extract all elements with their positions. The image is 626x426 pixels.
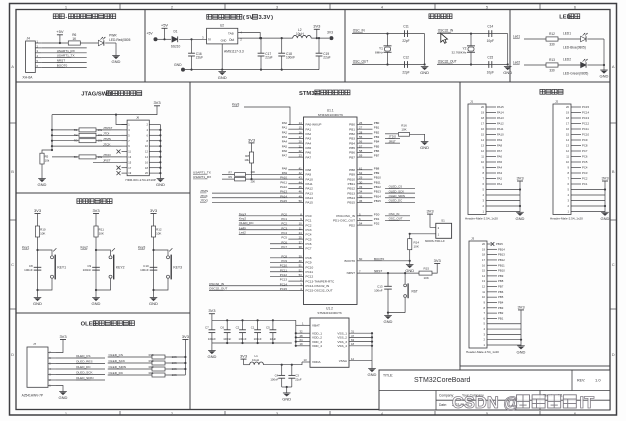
- resistor R11: [94, 226, 104, 237]
- svg-text:13: 13: [481, 144, 484, 148]
- wire J4 pin 2 stub: [35, 44, 41, 48]
- section box jtag: [16, 82, 190, 193]
- resistor R12: [546, 32, 558, 46]
- svg-text:OLED_RES: OLED_RES: [76, 360, 93, 364]
- svg-text:PA14: PA14: [306, 196, 314, 200]
- op-amp U1.1 pin names: [306, 123, 356, 293]
- svg-text:PC12: PC12: [582, 122, 589, 126]
- svg-text:49: 49: [299, 194, 303, 198]
- svg-text:52: 52: [299, 268, 303, 272]
- svg-text:PC13-TAMPER-RTC: PC13-TAMPER-RTC: [306, 279, 336, 283]
- svg-text:39: 39: [299, 254, 303, 258]
- node Led1 (mcu-pc): [239, 226, 289, 230]
- wire BOOT0 pin: [357, 257, 410, 261]
- svg-text:S1: S1: [441, 219, 445, 223]
- svg-text:16: 16: [299, 130, 303, 134]
- title mcu: [299, 90, 350, 97]
- svg-text:C11: C11: [403, 24, 409, 28]
- section box keys: [16, 193, 190, 313]
- svg-text:OSC_IN: OSC_IN: [389, 212, 400, 216]
- wire rail to R2: [51, 134, 79, 136]
- wire pc8 ext: [270, 257, 288, 259]
- svg-text:GND: GND: [156, 182, 165, 187]
- svg-text:Led2: Led2: [239, 230, 246, 234]
- svg-text:PD0-OSC_IN: PD0-OSC_IN: [336, 214, 355, 218]
- ground (KEY2): [92, 290, 101, 306]
- crystal Y1: [375, 34, 391, 65]
- svg-text:PA4: PA4: [497, 166, 503, 170]
- svg-text:62: 62: [359, 171, 363, 175]
- svg-text:OSC_OUT: OSC_OUT: [353, 59, 368, 63]
- wire Led1 to resistor: [524, 38, 546, 40]
- svg-text:C7: C7: [205, 326, 209, 330]
- wire key top branch: [38, 250, 53, 255]
- svg-text:11: 11: [299, 226, 302, 230]
- power flag 3V3 (R8): [248, 137, 256, 152]
- svg-text:42: 42: [299, 171, 303, 175]
- svg-text:PB6: PB6: [498, 290, 504, 294]
- node Led2 (mcu-pc): [239, 230, 289, 234]
- title led: [559, 14, 580, 21]
- svg-text:53: 53: [299, 273, 303, 277]
- svg-text:22: 22: [299, 149, 303, 153]
- svg-text:10: 10: [481, 160, 484, 164]
- resistor R6: [68, 33, 80, 45]
- svg-text:PC10: PC10: [306, 265, 314, 269]
- svg-text:14: 14: [299, 121, 303, 125]
- svg-text:GND: GND: [149, 301, 158, 306]
- svg-text:GND: GND: [503, 70, 512, 75]
- svg-text:PA5: PA5: [497, 160, 503, 164]
- svg-text:PA1: PA1: [306, 127, 312, 131]
- svg-text:PC11: PC11: [582, 127, 589, 131]
- svg-text:100nF: 100nF: [140, 268, 149, 272]
- svg-text:PA10: PA10: [306, 177, 314, 181]
- svg-text:OLED_DC: OLED_DC: [109, 371, 124, 375]
- svg-text:PB15: PB15: [374, 199, 381, 203]
- svg-text:A: A: [612, 64, 615, 69]
- wire U2 gnd pin: [221, 44, 223, 70]
- svg-text:100nF: 100nF: [374, 288, 383, 292]
- svg-text:PB11: PB11: [374, 180, 381, 184]
- connector J7 pin stubs: [48, 351, 56, 388]
- capacitor C4: [270, 365, 285, 387]
- svg-text:51: 51: [299, 264, 303, 268]
- svg-text:PB13: PB13: [374, 190, 381, 194]
- inductor L2: [293, 28, 312, 38]
- section box led: [510, 10, 610, 83]
- svg-text:PB9: PB9: [349, 173, 355, 177]
- svg-text:PB15: PB15: [496, 242, 503, 246]
- power flag 3V3 (vdd): [208, 308, 216, 320]
- svg-text:PA1: PA1: [282, 126, 288, 130]
- svg-text:10uH: 10uH: [296, 32, 304, 36]
- svg-text:PA0: PA0: [282, 121, 288, 125]
- svg-text:3V3: 3V3: [150, 208, 158, 213]
- svg-text:GND: GND: [38, 182, 47, 187]
- svg-text:B: B: [11, 169, 14, 174]
- svg-text:In: In: [208, 38, 211, 42]
- svg-text:KEY2: KEY2: [116, 266, 125, 270]
- svg-text:19: 19: [566, 111, 569, 115]
- svg-text:PB1: PB1: [374, 126, 380, 130]
- svg-text:10K: 10K: [424, 276, 429, 280]
- resistor R15: [419, 267, 432, 280]
- svg-text:J2: J2: [555, 100, 559, 104]
- power flag 3V3 (KEY3): [150, 208, 158, 226]
- svg-text:19: 19: [482, 247, 485, 251]
- svg-text:17: 17: [299, 135, 303, 139]
- svg-text:NRST: NRST: [347, 271, 356, 275]
- svg-text:PA15: PA15: [497, 105, 504, 109]
- wire U2 TAB: [238, 33, 260, 39]
- svg-text:61: 61: [359, 166, 363, 170]
- node Key3 (mcu): [232, 103, 290, 125]
- capacitor C11: [402, 24, 409, 43]
- svg-text:PC8: PC8: [306, 256, 312, 260]
- svg-text:C2: C2: [236, 326, 240, 330]
- svg-text:PC2: PC2: [306, 223, 312, 227]
- svg-text:PB5: PB5: [349, 146, 355, 150]
- section box power: [145, 10, 345, 83]
- svg-text:16: 16: [566, 127, 569, 131]
- op-amp U1.1 outline: [304, 108, 358, 304]
- watermark CSDN: [452, 394, 594, 412]
- svg-text:PC3: PC3: [582, 171, 588, 175]
- svg-text:IT: IT: [580, 394, 595, 412]
- node OLED_CS (pb): [385, 185, 415, 189]
- svg-text:JTRST: JTRST: [103, 126, 113, 130]
- svg-text:Date:: Date:: [439, 403, 447, 407]
- svg-text:Key1: Key1: [239, 212, 246, 216]
- svg-text:12: 12: [481, 149, 484, 153]
- svg-text:PB1: PB1: [349, 127, 355, 131]
- wire key top branch: [96, 250, 111, 255]
- connector J6 pin stubs: [122, 123, 156, 176]
- section box mcu: [190, 82, 460, 410]
- node 3V3 output: [327, 30, 333, 40]
- svg-text:15: 15: [481, 133, 484, 137]
- svg-text:PA15: PA15: [306, 201, 314, 205]
- capacitor C9: [83, 264, 100, 272]
- button KEY2: [109, 248, 125, 279]
- power flag +5V (power): [161, 23, 169, 41]
- svg-text:PA9: PA9: [497, 138, 503, 142]
- svg-text:15: 15: [299, 126, 303, 130]
- capacitor C3: [288, 365, 301, 387]
- svg-text:A2541HWV-7P: A2541HWV-7P: [22, 394, 43, 398]
- resistor R16: [399, 124, 410, 137]
- resistor R2: [74, 133, 103, 137]
- wire jtag left rail: [52, 114, 117, 151]
- node OSC_OUT (pd1): [385, 217, 410, 221]
- node Led2: [513, 61, 520, 65]
- svg-text:PA3: PA3: [497, 171, 503, 175]
- resistor R4: [52, 155, 122, 159]
- svg-text:10pF: 10pF: [487, 39, 494, 43]
- node OSC32_OUT: [438, 59, 457, 63]
- svg-text:22uF: 22uF: [270, 337, 277, 341]
- svg-text:PB4: PB4: [349, 141, 355, 145]
- svg-text:PC14: PC14: [582, 111, 589, 115]
- node oledp OLED_SDIN: [109, 365, 127, 369]
- ground (vdda): [282, 393, 291, 402]
- section box comms: [16, 10, 145, 83]
- node Key1: [22, 245, 29, 249]
- svg-text:R7: R7: [229, 170, 233, 174]
- wire KEY2 pull: [95, 237, 97, 291]
- wire L2 to output: [311, 37, 329, 39]
- svg-text:PB6: PB6: [374, 149, 380, 153]
- svg-text:OSC32_IN: OSC32_IN: [209, 282, 224, 286]
- node oled OLED_SDIN: [76, 376, 94, 380]
- svg-text:GND: GND: [420, 70, 429, 75]
- svg-text:PA12: PA12: [306, 187, 314, 191]
- svg-text:57: 57: [359, 144, 363, 148]
- svg-text:24: 24: [299, 231, 303, 235]
- svg-text:Header-Male-2.54_1x20: Header-Male-2.54_1x20: [550, 217, 583, 221]
- svg-text:VBAT: VBAT: [312, 324, 320, 328]
- svg-text:PA12: PA12: [497, 122, 504, 126]
- wire J4 pin 4 stub: [35, 54, 41, 58]
- svg-text:OLED_SDIN: OLED_SDIN: [76, 376, 94, 380]
- svg-text:CSDN @: CSDN @: [452, 394, 519, 412]
- title keys: [77, 199, 112, 204]
- wire pull to rail OLED_CS: [165, 356, 186, 358]
- crystal Y2: [452, 34, 475, 65]
- wire +5V to R6: [42, 42, 69, 44]
- svg-text:USART1_TX: USART1_TX: [193, 170, 211, 174]
- svg-text:10uH: 10uH: [252, 358, 259, 362]
- svg-text:PD0: PD0: [374, 212, 380, 216]
- wire R1 to J6: [96, 129, 122, 131]
- svg-text:AMS1117-3.3: AMS1117-3.3: [224, 50, 244, 54]
- power flag 3V3 (boot): [426, 209, 435, 228]
- svg-text:PA10: PA10: [497, 133, 504, 137]
- wire key bottom branch: [38, 279, 53, 290]
- svg-text:LED-Green(0805): LED-Green(0805): [563, 71, 588, 75]
- svg-text:18: 18: [566, 116, 569, 120]
- svg-text:PC5: PC5: [582, 160, 588, 164]
- svg-text:PC10: PC10: [582, 133, 589, 137]
- svg-text:GND: GND: [174, 63, 182, 67]
- svg-text:GND: GND: [59, 395, 68, 400]
- wire Led2 to resistor: [524, 64, 546, 66]
- wire L1 to vdda: [264, 362, 303, 366]
- section box oled: [16, 313, 190, 410]
- svg-text:60: 60: [359, 257, 363, 261]
- resistor R13: [546, 58, 558, 72]
- svg-text:OSC_OUT: OSC_OUT: [389, 217, 403, 221]
- svg-text:C12: C12: [403, 55, 409, 59]
- svg-text:OLED_SDIN: OLED_SDIN: [109, 365, 127, 369]
- svg-text:PA11: PA11: [497, 127, 504, 131]
- svg-text:J7: J7: [33, 342, 37, 346]
- wire oled pull OLED_SCK: [108, 362, 152, 364]
- resistor R10: [35, 226, 46, 237]
- svg-text:3V3: 3V3: [517, 304, 525, 309]
- svg-text:100: 100: [250, 180, 255, 184]
- svg-text:PB4: PB4: [374, 140, 380, 144]
- wire pc6 ext: [270, 243, 288, 245]
- svg-text:19: 19: [300, 342, 304, 346]
- svg-text:Key3: Key3: [138, 245, 145, 249]
- svg-text:PB3: PB3: [374, 135, 380, 139]
- wire oled pull OLED_DC: [108, 374, 152, 376]
- svg-text:PA7: PA7: [497, 149, 503, 153]
- svg-text:58: 58: [359, 149, 363, 153]
- svg-text:PB11: PB11: [498, 263, 505, 267]
- svg-text:C14: C14: [487, 24, 493, 28]
- svg-text:37: 37: [299, 240, 303, 244]
- svg-text:12: 12: [482, 285, 485, 289]
- svg-text:27: 27: [359, 126, 363, 130]
- svg-text:PC15: PC15: [582, 105, 589, 109]
- svg-text:PB7: PB7: [349, 155, 355, 159]
- wire resistor to LED: [558, 38, 581, 40]
- svg-text:22uF: 22uF: [323, 56, 330, 60]
- svg-text:KEY3: KEY3: [173, 266, 182, 270]
- svg-text:GND: GND: [368, 372, 377, 377]
- svg-text:USART1_TX: USART1_TX: [57, 54, 75, 58]
- svg-text:PB7: PB7: [498, 285, 504, 289]
- node JRST (pb4): [385, 139, 400, 143]
- svg-text:44: 44: [299, 180, 303, 184]
- svg-text:19: 19: [481, 111, 484, 115]
- svg-text:PB0: PB0: [374, 121, 380, 125]
- svg-text:13: 13: [304, 358, 308, 362]
- node oledp OLED_DC: [109, 371, 124, 375]
- svg-text:PC9: PC9: [306, 261, 312, 265]
- ground (vdd caps): [207, 343, 216, 359]
- svg-text:PB4: PB4: [498, 300, 504, 304]
- node OSC32_IN: [438, 28, 454, 32]
- svg-text:PA14: PA14: [497, 111, 504, 115]
- svg-text:R13: R13: [549, 58, 555, 62]
- svg-text:22pF: 22pF: [402, 70, 409, 74]
- title block outline: [379, 370, 610, 410]
- op-amp U1.2 outline: [310, 306, 349, 367]
- wire USART1_TX row: [42, 57, 87, 59]
- svg-text:100nF: 100nF: [208, 337, 216, 341]
- wire oled OLED_SDIN: [56, 379, 105, 381]
- LED PWR LED-Red: [98, 34, 130, 46]
- wire J4 pin 6 stub: [35, 64, 41, 68]
- svg-text:PA3: PA3: [306, 137, 312, 141]
- svg-text:JTDO: JTDO: [200, 198, 209, 202]
- svg-text:45: 45: [299, 185, 303, 189]
- resistor R21: [149, 371, 177, 377]
- ground (J3): [517, 346, 526, 355]
- svg-text:VDD_4: VDD_4: [312, 344, 322, 348]
- svg-text:PA6: PA6: [306, 151, 312, 155]
- svg-text:PB13: PB13: [498, 253, 505, 257]
- svg-text:PA6: PA6: [497, 155, 503, 159]
- resistor R20: [149, 365, 177, 371]
- svg-text:PA7: PA7: [306, 155, 312, 159]
- wire crystal right rail: [424, 34, 426, 66]
- wire crystal right rail: [507, 34, 509, 66]
- button KEY3: [167, 248, 183, 279]
- svg-text:17: 17: [482, 258, 485, 262]
- wire oled pull OLED_SDIN: [108, 368, 152, 370]
- connector J7: [22, 342, 48, 397]
- svg-text:GND: GND: [207, 354, 216, 359]
- ground (nrst): [384, 313, 393, 325]
- svg-text:VDDA: VDDA: [312, 360, 322, 364]
- svg-text:OSC32_OUT: OSC32_OUT: [209, 286, 228, 290]
- regulator U2 AMS1117-3.3: [202, 24, 244, 54]
- svg-text:3.3V: 3.3V: [258, 15, 270, 21]
- svg-text:3V3: 3V3: [434, 258, 442, 263]
- node Key2: [81, 245, 88, 249]
- svg-text:PA2: PA2: [497, 177, 503, 181]
- node BOOT0 (comms): [57, 64, 68, 68]
- svg-text:PB8: PB8: [349, 168, 355, 172]
- svg-text:R1: R1: [74, 128, 78, 132]
- resistor R19: [149, 359, 177, 365]
- capacitor C10: [140, 264, 157, 272]
- svg-text:PC1: PC1: [582, 182, 588, 186]
- svg-text:R9: R9: [229, 175, 233, 179]
- wire USART1_RX row: [42, 52, 87, 54]
- power flag 3V3 (oled): [56, 334, 67, 353]
- svg-text:J4: J4: [27, 37, 31, 41]
- svg-text:OLED_SCK: OLED_SCK: [389, 189, 404, 193]
- wire osc out: [437, 63, 508, 65]
- svg-text:10K: 10K: [99, 232, 104, 236]
- wire rail to R1: [51, 129, 79, 131]
- svg-text:OLED_SCK: OLED_SCK: [109, 359, 126, 363]
- node OLED_DC (mcu-pc): [239, 221, 289, 225]
- svg-text:3V3: 3V3: [248, 137, 256, 142]
- wire J1 pins: [481, 105, 524, 214]
- wire S1 pin1 to R14: [409, 233, 436, 240]
- svg-text:55: 55: [359, 135, 363, 139]
- svg-text:PB2: PB2: [374, 130, 380, 134]
- svg-text:R12: R12: [549, 32, 555, 36]
- svg-text:18: 18: [351, 342, 355, 346]
- connector J6 HDR-IDC: [126, 116, 156, 182]
- svg-text:PB12: PB12: [374, 185, 381, 189]
- node OSC_IN (pd0): [385, 212, 410, 216]
- capacitor C1: [251, 320, 262, 343]
- node oledp OLED_SCK: [109, 359, 126, 363]
- connector J2: [550, 100, 583, 221]
- svg-text:100nF: 100nF: [223, 337, 231, 341]
- svg-text:VSSA: VSSA: [339, 359, 348, 363]
- svg-text:22pF: 22pF: [402, 39, 409, 43]
- connector J4: [22, 37, 35, 80]
- capacitor C15: [487, 55, 494, 74]
- svg-text:PA13: PA13: [497, 116, 504, 120]
- svg-text:GND: GND: [33, 301, 42, 306]
- wire J2 pins: [566, 105, 609, 214]
- svg-text:100: 100: [250, 170, 255, 174]
- svg-text:15: 15: [482, 269, 485, 273]
- section box crystal: [345, 10, 510, 83]
- svg-text:PA0-WKUP: PA0-WKUP: [306, 123, 322, 127]
- wire pc9 ext: [270, 261, 288, 263]
- svg-text:PB5: PB5: [498, 295, 504, 299]
- wire pb2 to R16: [385, 133, 398, 135]
- node JTCK (mcu): [200, 194, 288, 198]
- ground (jtag right): [156, 179, 165, 188]
- svg-text:R3: R3: [74, 139, 78, 143]
- svg-text:RST: RST: [412, 290, 418, 294]
- svg-text:29: 29: [359, 176, 363, 180]
- svg-text:15: 15: [566, 133, 569, 137]
